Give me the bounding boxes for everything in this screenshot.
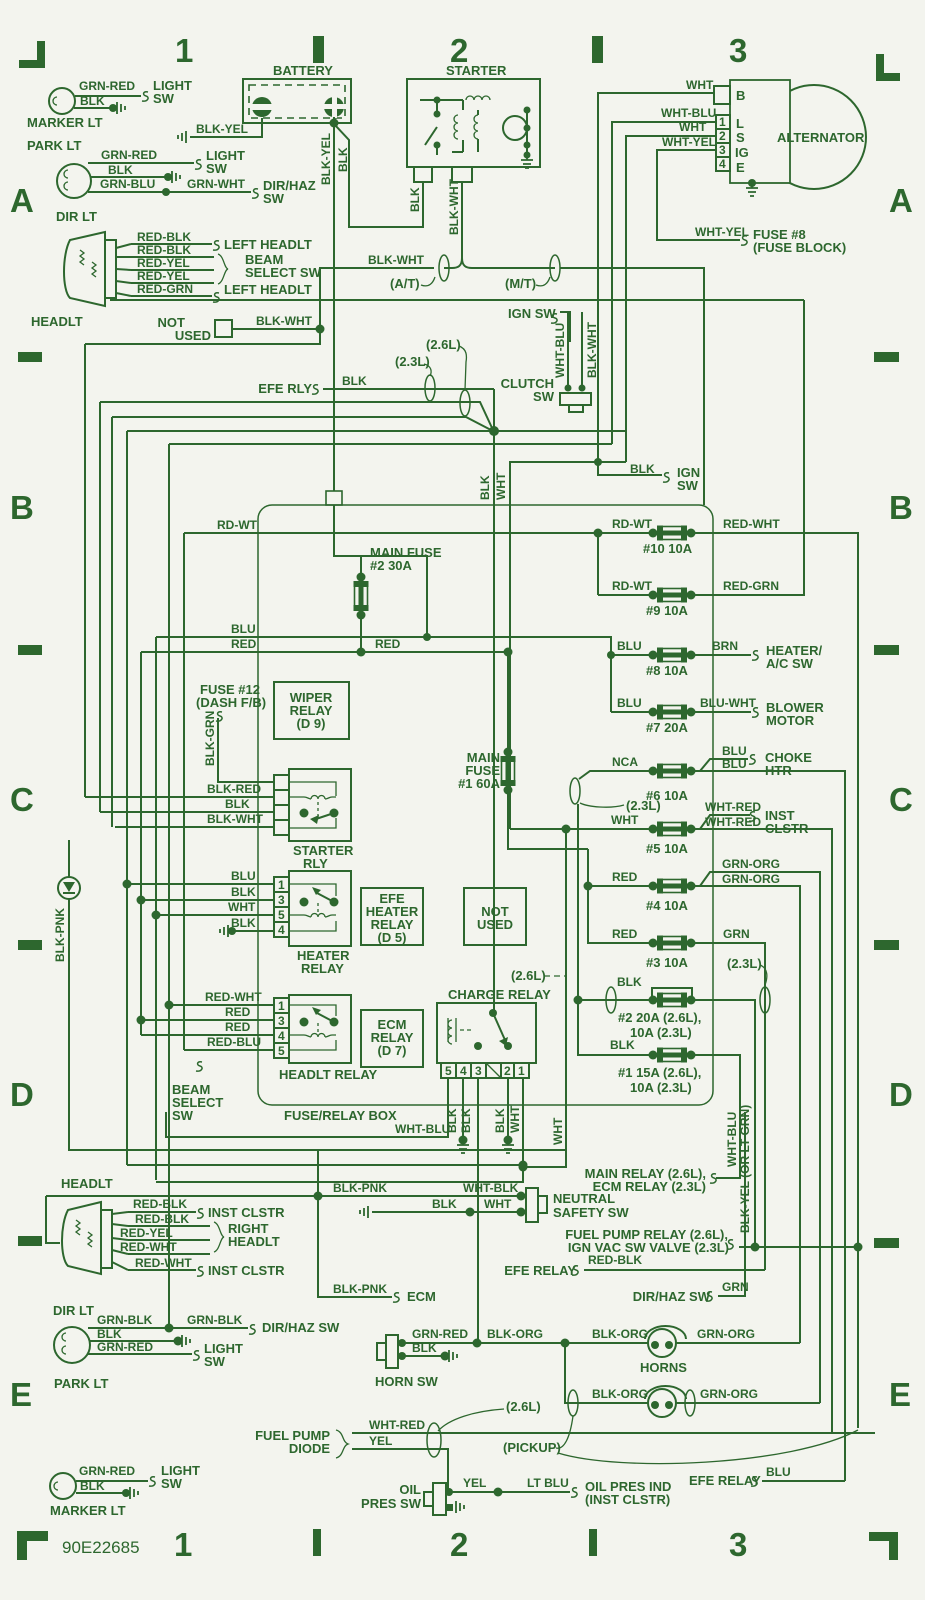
svg-text:ECM RELAY (2.3L): ECM RELAY (2.3L) xyxy=(593,1179,706,1194)
svg-text:FUSE/RELAY BOX: FUSE/RELAY BOX xyxy=(284,1108,397,1123)
svg-text:1: 1 xyxy=(175,32,193,69)
dir/park lamp bottom xyxy=(54,1327,90,1363)
wire BLU row to fuse 8 xyxy=(156,637,653,655)
svg-text:RED-WHT: RED-WHT xyxy=(205,990,262,1004)
connector oval 2.3L on GRN xyxy=(760,987,770,1013)
svg-text:WHT: WHT xyxy=(484,1197,512,1211)
svg-text:1: 1 xyxy=(278,878,285,892)
svg-text:HEADLT: HEADLT xyxy=(61,1176,113,1191)
wire clutch BLK-WHT up xyxy=(581,312,583,388)
svg-text:BLU: BLU xyxy=(617,639,642,653)
svg-text:MARKER LT: MARKER LT xyxy=(50,1503,126,1518)
fuse #7 20A xyxy=(649,705,696,720)
wire t5 WHT-BLU xyxy=(166,1078,448,1137)
svg-text:RD-WT: RD-WT xyxy=(217,518,258,532)
svg-text:10A (2.3L): 10A (2.3L) xyxy=(630,1080,692,1095)
junction RED-WHT / fuel pump row xyxy=(854,1243,863,1252)
svg-text:YEL: YEL xyxy=(369,1434,392,1448)
svg-text:E: E xyxy=(736,160,745,175)
wire EFE vertical down to charge relay xyxy=(493,389,495,1013)
wire GRN-BLK to dir/haz xyxy=(88,1327,248,1329)
svg-text:RED: RED xyxy=(612,870,638,884)
wire RED-WHT fuse10 out xyxy=(691,533,858,1428)
svg-text:E: E xyxy=(889,1376,911,1413)
svg-text:RED-GRN: RED-GRN xyxy=(723,579,779,593)
svg-text:#2 30A: #2 30A xyxy=(370,558,413,573)
svg-text:GRN-RED: GRN-RED xyxy=(79,79,135,93)
wire EFE RELAY RED-BLK xyxy=(584,1269,765,1271)
clutch switch xyxy=(501,376,591,412)
wire WHT-RED fuel pump xyxy=(352,1432,875,1434)
svg-text:4: 4 xyxy=(719,157,726,171)
tick left BC xyxy=(18,645,42,655)
svg-text:3: 3 xyxy=(729,32,747,69)
connector oval A/T xyxy=(439,255,449,281)
svg-text:(2.6L): (2.6L) xyxy=(506,1399,541,1414)
svg-text:GRN-BLK: GRN-BLK xyxy=(187,1313,243,1327)
svg-text:SW: SW xyxy=(172,1108,194,1123)
border corner top-right xyxy=(876,54,900,81)
svg-text:SW: SW xyxy=(263,191,285,206)
wire RED-BLU to headlt relay 5 xyxy=(184,1049,274,1051)
wire RED-BLK lead1 xyxy=(131,243,212,245)
svg-text:3: 3 xyxy=(475,1064,482,1078)
svg-text:BLK: BLK xyxy=(108,163,133,177)
tick right BC xyxy=(874,645,899,655)
svg-text:WHT-BLU: WHT-BLU xyxy=(395,1122,450,1136)
headlamp left (sealed beam) xyxy=(64,232,116,306)
svg-text:RED-YEL: RED-YEL xyxy=(137,256,190,270)
svg-text:A: A xyxy=(10,182,34,219)
svg-text:1: 1 xyxy=(518,1064,525,1078)
headlamp lead stubs xyxy=(116,244,131,296)
connector oval 2.3L on EFE wire xyxy=(425,375,435,401)
svg-text:#7 20A: #7 20A xyxy=(646,720,689,735)
svg-text:RED-WHT: RED-WHT xyxy=(135,1256,192,1270)
wire BLK to ground xyxy=(90,1340,178,1342)
svg-text:SAFETY SW: SAFETY SW xyxy=(553,1205,629,1220)
svg-text:GRN-BLK: GRN-BLK xyxy=(97,1313,153,1327)
squiggle xyxy=(195,160,201,169)
headlt relay terminals xyxy=(274,998,289,1058)
svg-text:BLK-RED: BLK-RED xyxy=(207,782,261,796)
ground park lt xyxy=(172,171,180,183)
svg-text:GRN-ORG: GRN-ORG xyxy=(722,857,780,871)
svg-text:LEFT HEADLT: LEFT HEADLT xyxy=(224,237,312,252)
svg-text:DIR LT: DIR LT xyxy=(53,1303,94,1318)
svg-text:BLK: BLK xyxy=(336,147,350,172)
wire WHT corner row y462 xyxy=(510,462,626,829)
wire BLU-WHT fuse7 out xyxy=(691,711,751,713)
svg-text:GRN-ORG: GRN-ORG xyxy=(700,1387,758,1401)
wire RED to headlt relay 4 xyxy=(141,1034,274,1036)
svg-text:WHT-RED: WHT-RED xyxy=(369,1418,425,1432)
svg-text:SW: SW xyxy=(206,161,228,176)
svg-text:BLU: BLU xyxy=(722,757,747,771)
svg-text:HEADLT RELAY: HEADLT RELAY xyxy=(279,1067,378,1082)
svg-text:BLK-PNK: BLK-PNK xyxy=(333,1181,387,1195)
wire BLK-WHT not used to trunk xyxy=(232,328,320,330)
svg-text:RED-BLK: RED-BLK xyxy=(133,1197,187,1211)
svg-text:GRN-RED: GRN-RED xyxy=(412,1327,468,1341)
wire nest outer: down from A/T junction, left, down xyxy=(85,329,320,344)
junction dot xyxy=(164,173,172,181)
fuse #8 10A xyxy=(649,648,696,663)
wire GRN-RED BLK-ORG horn feed xyxy=(402,1342,648,1344)
svg-text:3: 3 xyxy=(278,1014,285,1028)
svg-text:BLU: BLU xyxy=(231,869,256,883)
brace fuel pump xyxy=(336,1430,348,1458)
fuse #2 20A xyxy=(649,993,696,1008)
svg-text:INST CLSTR: INST CLSTR xyxy=(208,1205,285,1220)
svg-text:WHT: WHT xyxy=(551,1117,565,1145)
tick right AB xyxy=(874,352,899,362)
svg-text:IGN SW: IGN SW xyxy=(508,306,556,321)
svg-text:USED: USED xyxy=(175,328,211,343)
svg-text:(D 9): (D 9) xyxy=(297,716,326,731)
svg-text:WHT: WHT xyxy=(611,813,639,827)
park light (lamp) xyxy=(57,164,91,198)
squiggle xyxy=(213,241,219,250)
svg-text:RELAY: RELAY xyxy=(301,961,344,976)
wire EFE RELAY BLU xyxy=(762,1480,845,1482)
svg-text:BLU: BLU xyxy=(231,622,256,636)
starter internals xyxy=(420,96,533,168)
wire GRN out fuse3 xyxy=(691,943,765,1270)
svg-text:90E22685: 90E22685 xyxy=(62,1538,140,1557)
marker light bottom (lamp) xyxy=(50,1473,76,1499)
wire BLU lower out fuse6 to EFE relay blu xyxy=(691,771,845,1481)
tick bottom 1 xyxy=(313,1529,321,1556)
wire BLK-GRN fuse12 to starter rly xyxy=(218,718,274,782)
svg-text:HORN SW: HORN SW xyxy=(375,1374,439,1389)
svg-text:2: 2 xyxy=(719,129,726,143)
svg-text:#5 10A: #5 10A xyxy=(646,841,689,856)
svg-text:IG: IG xyxy=(735,145,749,160)
svg-text:A: A xyxy=(889,182,913,219)
EFE heater relay box xyxy=(361,888,423,945)
svg-text:DIR LT: DIR LT xyxy=(56,209,97,224)
svg-text:GRN-RED: GRN-RED xyxy=(97,1340,153,1354)
wire BLK to starter rly xyxy=(100,811,274,813)
NOT USED connector xyxy=(215,320,232,337)
wire fuse2 out xyxy=(691,1000,755,1247)
svg-text:RED: RED xyxy=(225,1005,251,1019)
svg-text:SW: SW xyxy=(204,1354,226,1369)
ECM relay box xyxy=(361,1010,423,1067)
connector squiggle light sw xyxy=(142,92,148,101)
svg-text:OIL: OIL xyxy=(399,1482,421,1497)
svg-text:BLK-ORG: BLK-ORG xyxy=(487,1327,543,1341)
wire GRN-RED marker to light sw xyxy=(76,1480,148,1482)
svg-text:(D 7): (D 7) xyxy=(378,1043,407,1058)
svg-text:PARK LT: PARK LT xyxy=(54,1376,108,1391)
svg-text:#9 10A: #9 10A xyxy=(646,603,689,618)
wire BLK marker to ground xyxy=(74,107,113,109)
svg-text:BLU: BLU xyxy=(617,696,642,710)
svg-text:HEADLT: HEADLT xyxy=(31,314,83,329)
junction node xyxy=(489,426,499,436)
svg-text:STARTER: STARTER xyxy=(446,63,507,78)
svg-text:RED-BLK: RED-BLK xyxy=(135,1212,189,1226)
ground marker lt xyxy=(117,102,125,114)
svg-text:BLK: BLK xyxy=(225,797,250,811)
diode BLK-PNK left xyxy=(58,840,566,1196)
svg-text:RED-WHT: RED-WHT xyxy=(120,1240,177,1254)
wire WHT-BLU from 1 L xyxy=(612,122,716,444)
wire GRN-ORG horn1 out xyxy=(676,1342,800,1344)
svg-text:BLK-ORG: BLK-ORG xyxy=(592,1327,648,1341)
svg-text:2: 2 xyxy=(450,1526,468,1563)
wire BLK starter xyxy=(335,125,423,227)
svg-text:RED: RED xyxy=(375,637,401,651)
squiggle xyxy=(741,236,747,245)
svg-text:2: 2 xyxy=(504,1064,511,1078)
fuse #9 10A xyxy=(649,588,696,603)
wire BLK to heater relay 3 xyxy=(141,899,274,901)
svg-text:PARK LT: PARK LT xyxy=(27,138,81,153)
svg-text:(A/T): (A/T) xyxy=(390,276,420,291)
wire WHT-BLU L row y444 to left nest xyxy=(169,443,612,445)
svg-text:WHT-BLU: WHT-BLU xyxy=(661,106,716,120)
svg-text:RED-YEL: RED-YEL xyxy=(120,1226,173,1240)
wire WHT-RED out fuse5 xyxy=(691,815,832,1433)
fuse #3 10A xyxy=(649,936,696,951)
svg-text:BLK: BLK xyxy=(342,374,367,388)
wire M/T branch right down to fuse box top xyxy=(560,268,704,505)
svg-text:RED-BLU: RED-BLU xyxy=(207,1035,261,1049)
svg-text:C: C xyxy=(10,781,34,818)
wire EFE RLY BLK xyxy=(323,388,494,390)
wire WHT-YEL from 3 IG to fuse 8 xyxy=(657,150,740,240)
svg-text:HEADLT: HEADLT xyxy=(228,1234,280,1249)
svg-text:D: D xyxy=(10,1076,34,1113)
svg-text:BLK: BLK xyxy=(97,1327,122,1341)
NOT USED box xyxy=(464,888,526,945)
svg-text:(2.6L): (2.6L) xyxy=(511,968,546,983)
svg-text:GRN-RED: GRN-RED xyxy=(79,1464,135,1478)
svg-text:RED-BLK: RED-BLK xyxy=(137,243,191,257)
svg-text:GRN: GRN xyxy=(723,927,750,941)
svg-text:E: E xyxy=(10,1376,32,1413)
svg-text:4: 4 xyxy=(278,1029,285,1043)
squiggle xyxy=(252,189,258,198)
svg-text:EFE RELAY: EFE RELAY xyxy=(689,1473,761,1488)
heater relay box xyxy=(289,871,351,946)
wire t4 BLK to ground xyxy=(462,1078,464,1140)
svg-text:WHT-YEL: WHT-YEL xyxy=(662,135,716,149)
wire BLK WHT row to neutral safety xyxy=(372,1211,521,1213)
tick top 1 xyxy=(313,36,324,63)
svg-text:LT BLU: LT BLU xyxy=(527,1476,569,1490)
pickup curve left xyxy=(556,1416,573,1448)
wire RED-BLK lead1 xyxy=(128,1211,196,1213)
svg-text:1: 1 xyxy=(174,1526,192,1563)
svg-text:(FUSE BLOCK): (FUSE BLOCK) xyxy=(753,240,846,255)
svg-text:#4 10A: #4 10A xyxy=(646,898,689,913)
connector oval big xyxy=(427,1423,441,1457)
junction dot xyxy=(607,651,615,659)
wire fuse7 feed BLU xyxy=(611,711,653,713)
junction dot xyxy=(109,104,117,112)
svg-text:BLK: BLK xyxy=(231,885,256,899)
svg-text:DIR/HAZ SW: DIR/HAZ SW xyxy=(262,1320,340,1335)
wire horn2 feed xyxy=(565,1343,648,1403)
svg-text:CLSTR: CLSTR xyxy=(765,821,809,836)
wire BLK-WHT to starter rly xyxy=(115,826,274,828)
svg-text:BLK: BLK xyxy=(459,1108,473,1133)
junction dot xyxy=(162,188,170,196)
svg-text:DIODE: DIODE xyxy=(289,1441,331,1456)
border corner top-left xyxy=(19,41,45,68)
svg-text:RLY: RLY xyxy=(303,856,328,871)
svg-text:RD-WT: RD-WT xyxy=(612,517,653,531)
ground battery xyxy=(178,131,186,143)
wire nest row y402 xyxy=(100,402,493,430)
svg-text:BLK-PNK: BLK-PNK xyxy=(53,908,67,962)
svg-text:4: 4 xyxy=(278,923,285,937)
wire RED-YEL lead4 xyxy=(131,282,214,284)
wire BLU CHOKE HTR xyxy=(691,759,748,771)
tick right CD xyxy=(874,940,899,950)
alternator xyxy=(730,80,866,189)
svg-text:CHARGE RELAY: CHARGE RELAY xyxy=(448,987,551,1002)
svg-text:GRN: GRN xyxy=(722,1280,749,1294)
svg-text:B: B xyxy=(889,489,913,526)
main fuse #1 60A xyxy=(501,748,516,795)
svg-text:BLK: BLK xyxy=(80,1479,105,1493)
oil pressure switch xyxy=(424,1483,464,1515)
svg-text:WHT: WHT xyxy=(679,120,707,134)
wire WHT to heater relay 5 xyxy=(156,914,274,916)
svg-text:BLK-YEL: BLK-YEL xyxy=(319,133,333,185)
pickup curve right xyxy=(558,1430,858,1464)
wire BLK park to ground xyxy=(91,176,168,178)
svg-text:(2.6L): (2.6L) xyxy=(426,337,461,352)
tick left AB xyxy=(18,352,42,362)
svg-text:BLK: BLK xyxy=(408,187,422,212)
svg-text:BLK: BLK xyxy=(412,1341,437,1355)
svg-text:WHT: WHT xyxy=(686,78,714,92)
svg-text:C: C xyxy=(889,781,913,818)
wire RED-BLK lead2 xyxy=(128,1225,210,1227)
svg-text:WHT-BLK: WHT-BLK xyxy=(463,1181,519,1195)
svg-text:SW: SW xyxy=(153,91,175,106)
svg-text:(2.3L): (2.3L) xyxy=(727,956,762,971)
svg-text:BLK-GRN: BLK-GRN xyxy=(203,711,217,766)
svg-text:1: 1 xyxy=(278,999,285,1013)
fuse #6 feed NCA with 2.3L oval xyxy=(579,771,653,779)
svg-text:BLK: BLK xyxy=(493,1108,507,1133)
fuse/relay box outline xyxy=(258,505,713,1105)
svg-text:GRN-RED: GRN-RED xyxy=(101,148,157,162)
svg-text:BRN: BRN xyxy=(712,639,738,653)
fuse #1 15A xyxy=(649,1048,696,1063)
horn 2 xyxy=(645,1386,686,1417)
svg-text:BLK-WHT: BLK-WHT xyxy=(207,812,264,826)
wire WHT branch xyxy=(523,829,566,1167)
wire RED-YEL lead3 xyxy=(131,269,214,271)
wire battery minus to ground BLK-YEL xyxy=(190,118,262,137)
svg-text:(M/T): (M/T) xyxy=(505,276,536,291)
wire fuse9 feed xyxy=(598,594,653,596)
wire GRN-RED to light sw xyxy=(88,1353,192,1355)
svg-text:EFE RLY: EFE RLY xyxy=(258,381,312,396)
svg-text:#3 10A: #3 10A xyxy=(646,955,689,970)
wire fuse4 feed xyxy=(588,885,653,887)
wire BLK row fuse2s xyxy=(578,804,653,1055)
wire A/T branch left xyxy=(320,268,434,329)
connector oval xyxy=(568,1390,578,1416)
right headlamp (sealed beam) xyxy=(62,1202,112,1274)
connector oval xyxy=(685,1390,695,1416)
horn 1 xyxy=(645,1326,686,1357)
svg-text:BLK-WHT: BLK-WHT xyxy=(585,321,599,378)
svg-text:10A (2.3L): 10A (2.3L) xyxy=(630,1025,692,1040)
wire BLK marker to ground xyxy=(76,1492,126,1494)
svg-text:BLK: BLK xyxy=(445,1108,459,1133)
main fuse #2 30A xyxy=(357,648,366,657)
fuse #4 10A xyxy=(649,879,696,894)
svg-text:RED: RED xyxy=(225,1020,251,1034)
svg-text:A/C SW: A/C SW xyxy=(766,656,814,671)
starter relay box xyxy=(289,769,351,841)
svg-text:MOTOR: MOTOR xyxy=(766,713,815,728)
svg-text:(D 5): (D 5) xyxy=(378,930,407,945)
svg-text:5: 5 xyxy=(445,1064,452,1078)
svg-text:#2 20A (2.6L),: #2 20A (2.6L), xyxy=(618,1010,701,1025)
svg-text:RED-YEL: RED-YEL xyxy=(137,269,190,283)
svg-text:#10 10A: #10 10A xyxy=(643,541,693,556)
svg-text:BLK: BLK xyxy=(617,975,642,989)
svg-text:BLK-ORG: BLK-ORG xyxy=(592,1387,648,1401)
svg-text:4: 4 xyxy=(460,1064,467,1078)
wire BLK ground to heater relay 4 xyxy=(232,930,274,932)
alternator B terminal box xyxy=(714,86,730,104)
tick left DE xyxy=(18,1236,42,1246)
wire RED to headlt relay xyxy=(141,1019,274,1021)
svg-text:BLU: BLU xyxy=(722,744,747,758)
svg-text:WHT-RED: WHT-RED xyxy=(705,815,761,829)
wire RED-GRN long run to right side xyxy=(110,299,804,301)
wire WHT from B down left side xyxy=(598,93,714,595)
svg-text:5: 5 xyxy=(278,908,285,922)
wire YEL LT BLU to oil pres ind xyxy=(449,1491,570,1493)
wire RD-WT row to fuse 10 xyxy=(184,532,653,534)
wire GRN-RED marker to light sw xyxy=(75,95,141,97)
wire nest row y431 xyxy=(127,430,626,432)
fuse #6 10A xyxy=(649,764,696,779)
alternator terminal boxes 1-4 xyxy=(716,115,749,175)
junction dot fuse4 feed xyxy=(584,882,593,891)
svg-text:RD-WT: RD-WT xyxy=(612,579,653,593)
svg-text:GRN-BLU: GRN-BLU xyxy=(100,177,155,191)
svg-text:RED-BLK: RED-BLK xyxy=(588,1253,642,1267)
wire RED-WHT lead5 xyxy=(128,1269,196,1271)
border corner bottom-left xyxy=(17,1531,48,1560)
svg-text:B: B xyxy=(736,88,745,103)
wire GRN-ORG horn2 out xyxy=(676,1402,820,1404)
svg-text:#8 10A: #8 10A xyxy=(646,663,689,678)
svg-text:BLK: BLK xyxy=(80,94,105,108)
svg-text:S: S xyxy=(736,130,745,145)
wire nest row y417 xyxy=(112,417,491,430)
svg-text:BLK-PNK: BLK-PNK xyxy=(333,1282,387,1296)
svg-text:RED: RED xyxy=(231,637,257,651)
wire BLK to IGN SW xyxy=(598,470,662,475)
wire GRN-ORG out fuse4 xyxy=(691,872,820,1403)
wire BRN fuse8 out xyxy=(691,654,751,656)
